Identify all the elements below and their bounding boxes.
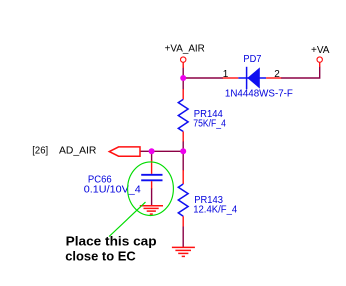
power symbol +VA (317, 57, 322, 67)
wire: capacitor tap down (151, 151, 153, 161)
junction at capacitor tap (149, 148, 155, 154)
wire: middle rail between junctions (152, 150, 184, 152)
svg-text:Place this cap: Place this cap (66, 233, 157, 248)
wire: PR144 to middle junction (182, 141, 184, 151)
svg-text:1N4448WS-7-F: 1N4448WS-7-F (225, 88, 293, 99)
svg-text:close to EC: close to EC (65, 248, 136, 263)
resistor PR143 (178, 170, 188, 227)
wire: top junction down to PR144 (182, 78, 184, 90)
off-page connector AD_AIR (109, 147, 140, 156)
svg-text:1: 1 (223, 69, 229, 80)
svg-text:2: 2 (274, 69, 280, 80)
diode PD7 pin 1 (red) (223, 77, 239, 79)
ground (PR143) (172, 247, 195, 256)
diode PD7 symbol (238, 67, 266, 89)
ground (capacitor) (140, 206, 163, 214)
annotation pointer line (109, 202, 145, 236)
wire: diode pin 2 to +VA corner (281, 67, 320, 79)
svg-text:PD7: PD7 (243, 54, 261, 65)
top junction (180, 75, 186, 81)
svg-text:12.4K/F_4: 12.4K/F_4 (193, 204, 237, 215)
wire: AD_AIR connector to capacitor tap junction (140, 150, 152, 152)
svg-text:+VA: +VA (311, 45, 330, 56)
resistor PR144 (178, 89, 188, 142)
power symbol +VA_AIR (181, 57, 186, 68)
wire: capacitor to ground (151, 188, 153, 205)
junction at main rail (180, 148, 186, 154)
svg-text:0.1U/10V_4: 0.1U/10V_4 (84, 184, 141, 195)
capacitor PC66 (141, 160, 162, 189)
svg-text:+VA_AIR: +VA_AIR (165, 44, 205, 55)
annotation ellipse around PC66 (128, 162, 174, 216)
svg-text:AD_AIR: AD_AIR (59, 145, 96, 156)
svg-text:75K/F_4: 75K/F_4 (193, 118, 226, 129)
svg-text:[26]: [26] (32, 145, 48, 156)
wire: +VA_AIR power stub to top junction (182, 67, 184, 79)
wire: PR143 to ground (182, 227, 184, 248)
wire: top rail from +VA_AIR junction to diode pin 1 (183, 77, 223, 79)
diode pin 2 (red) (266, 77, 281, 79)
wire: middle junction down to PR143 (182, 151, 184, 171)
